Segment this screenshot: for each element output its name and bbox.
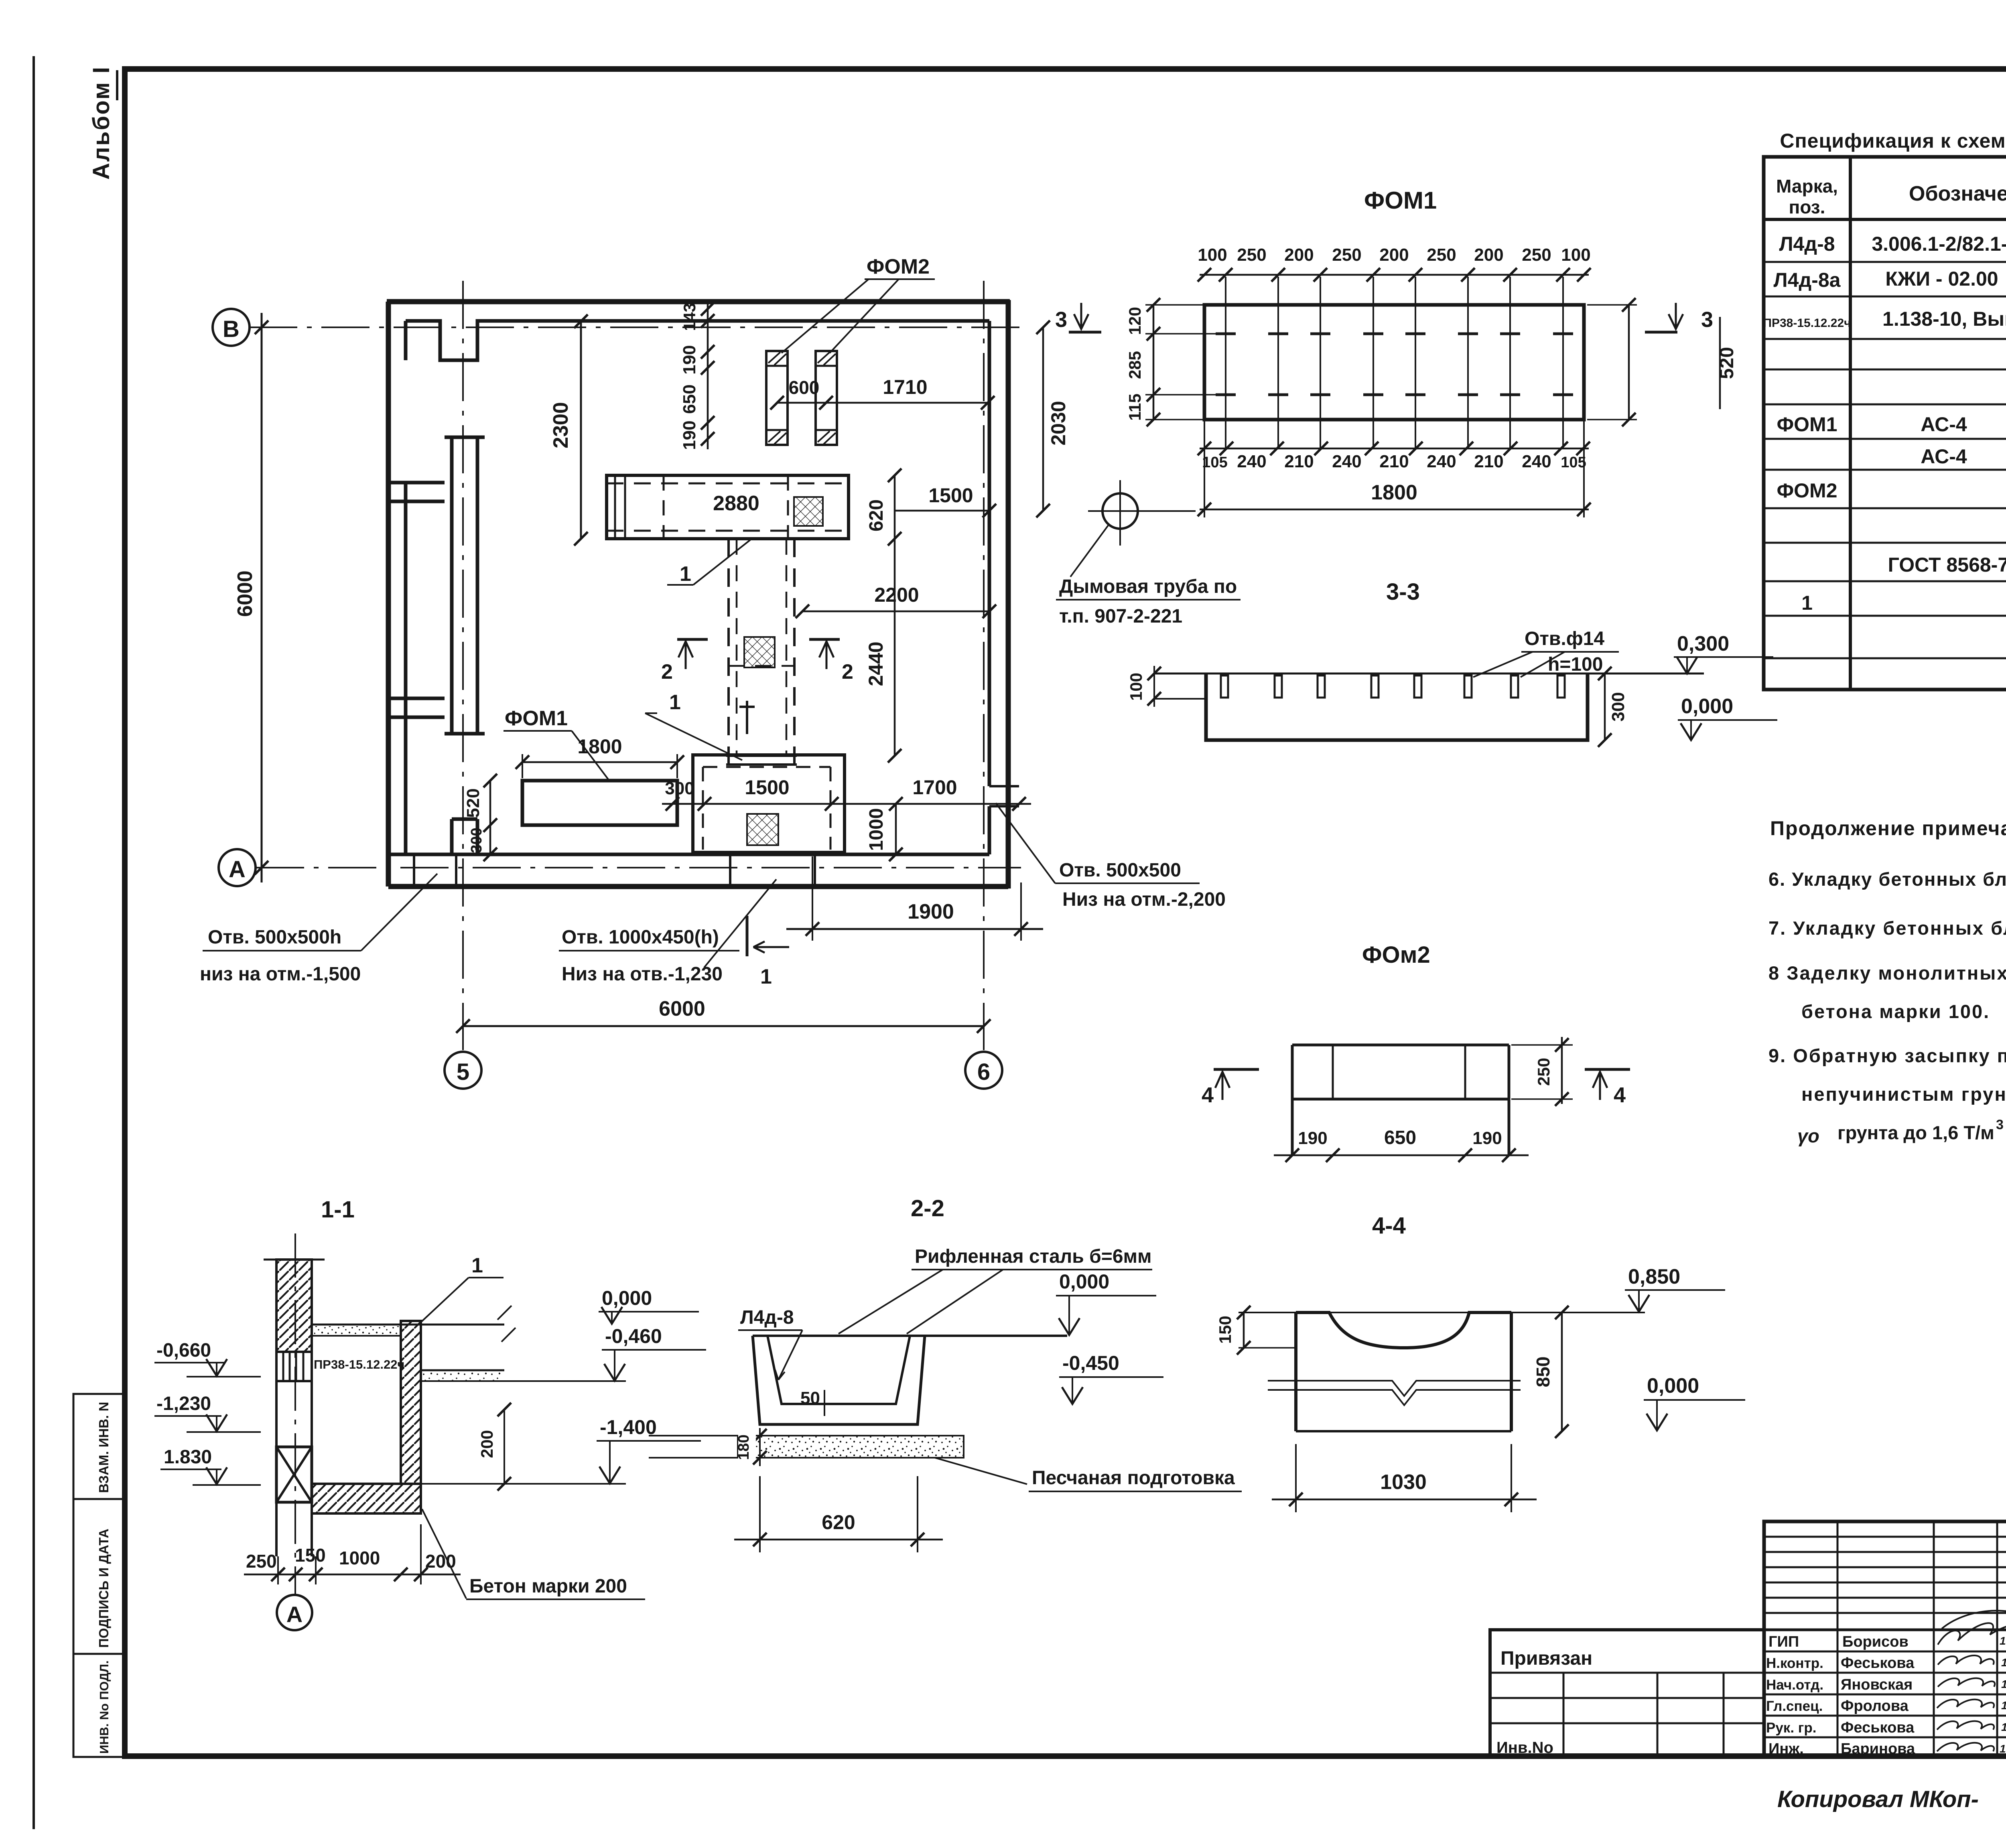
- svg-text:150: 150: [1216, 1316, 1234, 1344]
- svg-text:4: 4: [1614, 1083, 1626, 1107]
- svg-text:240: 240: [1522, 452, 1551, 471]
- svg-text:В: В: [223, 316, 240, 342]
- svg-text:620: 620: [822, 1511, 855, 1534]
- svg-text:Отв. 500x500: Отв. 500x500: [1059, 860, 1181, 881]
- svg-text:ФОМ1: ФОМ1: [505, 707, 568, 730]
- svg-text:650: 650: [1384, 1127, 1416, 1148]
- svg-text:105: 105: [1202, 454, 1227, 471]
- svg-text:200: 200: [477, 1430, 496, 1458]
- svg-text:6: 6: [977, 1059, 990, 1085]
- svg-text:850: 850: [1533, 1357, 1553, 1388]
- svg-text:Копировал МКоп-: Копировал МКоп-: [1777, 1786, 1979, 1812]
- svg-text:250: 250: [1237, 245, 1266, 265]
- svg-text:ФОМ2: ФОМ2: [1777, 479, 1837, 502]
- svg-text:620: 620: [866, 499, 887, 531]
- svg-text:520: 520: [463, 788, 483, 818]
- svg-text:0,300: 0,300: [1677, 632, 1729, 655]
- svg-text:240: 240: [1427, 452, 1456, 471]
- svg-text:1: 1: [760, 965, 772, 988]
- svg-text:Борисов: Борисов: [1842, 1633, 1909, 1650]
- svg-text:8 Заделку монолитных участков: 8 Заделку монолитных участков фундаменто…: [1768, 962, 2006, 984]
- svg-text:1.830: 1.830: [164, 1446, 212, 1468]
- svg-text:ВЗАМ. ИНВ. N: ВЗАМ. ИНВ. N: [96, 1402, 111, 1493]
- svg-text:ФОМ1: ФОМ1: [1364, 187, 1437, 214]
- svg-text:180: 180: [735, 1434, 752, 1460]
- svg-text:4: 4: [1202, 1083, 1214, 1107]
- svg-text:-0,660: -0,660: [156, 1340, 211, 1361]
- svg-text:Низ на отв.-1,230: Низ на отв.-1,230: [562, 964, 723, 985]
- svg-text:115: 115: [1125, 394, 1144, 421]
- svg-text:1700: 1700: [912, 776, 957, 799]
- svg-text:Марка,: Марка,: [1776, 176, 1838, 197]
- svg-text:6000: 6000: [233, 570, 257, 617]
- svg-text:ИНВ. No ПОДЛ.: ИНВ. No ПОДЛ.: [97, 1660, 111, 1754]
- svg-text:190: 190: [680, 420, 699, 450]
- svg-text:1800: 1800: [1371, 481, 1417, 504]
- svg-text:2880: 2880: [713, 492, 759, 515]
- svg-text:190: 190: [1472, 1128, 1502, 1148]
- svg-text:6. Укладку бетонных блоков вес: 6. Укладку бетонных блоков вести в соотв…: [1768, 868, 2006, 890]
- svg-text:250: 250: [1522, 245, 1551, 265]
- svg-text:300: 300: [665, 779, 694, 798]
- svg-text:А: А: [286, 1602, 303, 1627]
- svg-text:Фролова: Фролова: [1841, 1698, 1909, 1714]
- svg-text:низ на отм.-1,500: низ на отм.-1,500: [200, 964, 361, 985]
- svg-text:210: 210: [1379, 452, 1409, 471]
- svg-text:250: 250: [1534, 1058, 1553, 1086]
- svg-text:Рук. гр.: Рук. гр.: [1766, 1720, 1816, 1736]
- svg-text:ГИП: ГИП: [1768, 1633, 1799, 1650]
- svg-text:Баринова: Баринова: [1841, 1740, 1915, 1757]
- svg-text:3: 3: [1055, 308, 1067, 332]
- svg-text:1000: 1000: [866, 808, 887, 851]
- svg-text:1710: 1710: [883, 376, 927, 398]
- svg-text:1: 1: [669, 691, 681, 714]
- svg-text:Спецификация к схеме расположе: Спецификация к схеме расположения элемен…: [1780, 130, 2006, 152]
- svg-text:1: 1: [1801, 592, 1813, 614]
- svg-text:непучинистым грунтом послойно: непучинистым грунтом послойно с доведени…: [1801, 1083, 2006, 1105]
- svg-text:Феськова: Феськова: [1841, 1655, 1915, 1672]
- svg-text:650: 650: [680, 384, 699, 414]
- svg-text:7. Укладку бетонных блоков вес: 7. Укладку бетонных блоков вести на раст…: [1768, 917, 2006, 939]
- svg-text:2: 2: [661, 660, 673, 684]
- svg-text:4-4: 4-4: [1372, 1213, 1406, 1239]
- svg-text:Отв. 1000x450(h): Отв. 1000x450(h): [562, 927, 719, 948]
- svg-text:200: 200: [425, 1551, 456, 1572]
- svg-text:250: 250: [1332, 245, 1361, 265]
- svg-text:143: 143: [680, 303, 699, 331]
- svg-text:250: 250: [1427, 245, 1456, 265]
- svg-text:т.п. 907-2-221: т.п. 907-2-221: [1059, 606, 1182, 627]
- svg-text:ФОМ1: ФОМ1: [1777, 413, 1837, 436]
- svg-text:-1,230: -1,230: [156, 1393, 211, 1414]
- svg-text:Гл.спец.: Гл.спец.: [1766, 1698, 1823, 1714]
- svg-text:Н.контр.: Н.контр.: [1766, 1655, 1823, 1671]
- svg-text:Л4д-8: Л4д-8: [740, 1307, 794, 1328]
- svg-text:100: 100: [1198, 245, 1227, 265]
- svg-text:Продолжение примечаний к АС-4.: Продолжение примечаний к АС-4.: [1770, 817, 2006, 840]
- svg-text:0,000: 0,000: [1681, 695, 1733, 718]
- svg-text:1000: 1000: [339, 1548, 380, 1568]
- svg-text:Обозначение: Обозначение: [1909, 182, 2006, 205]
- svg-text:1030: 1030: [1380, 1471, 1427, 1494]
- svg-text:0,000: 0,000: [602, 1287, 652, 1309]
- svg-text:100: 100: [1561, 245, 1590, 265]
- svg-text:поз.: поз.: [1789, 197, 1825, 217]
- svg-text:2200: 2200: [874, 584, 919, 606]
- svg-text:1500: 1500: [928, 484, 973, 507]
- svg-text:6000: 6000: [659, 997, 705, 1020]
- svg-text:Л4д-8: Л4д-8: [1779, 233, 1835, 255]
- svg-text:-1,400: -1,400: [600, 1416, 657, 1438]
- svg-text:ФОМ2: ФОМ2: [867, 255, 930, 278]
- svg-text:240: 240: [1237, 452, 1266, 471]
- svg-text:Нач.отд.: Нач.отд.: [1766, 1677, 1823, 1693]
- svg-text:3.006.1-2/82.1-1-04.0-2: 3.006.1-2/82.1-1-04.0-2: [1872, 233, 2006, 255]
- svg-text:Привязан: Привязан: [1500, 1648, 1592, 1669]
- svg-text:Бетон марки 200: Бетон марки 200: [469, 1576, 627, 1597]
- svg-text:190: 190: [1298, 1128, 1327, 1148]
- svg-text:0,000: 0,000: [1059, 1270, 1109, 1293]
- svg-text:Рифленная сталь б=6мм: Рифленная сталь б=6мм: [915, 1246, 1152, 1267]
- svg-text:9. Обратную засыпку пазух фун: 9. Обратную засыпку пазух фундаментов пр…: [1768, 1045, 2006, 1066]
- svg-text:ГОСТ 8568-77*: ГОСТ 8568-77*: [1888, 554, 2006, 576]
- svg-text:-0,450: -0,450: [1062, 1352, 1119, 1374]
- svg-text:Низ на отм.-2,200: Низ на отм.-2,200: [1062, 889, 1226, 910]
- svg-text:120: 120: [1125, 307, 1144, 335]
- svg-text:240: 240: [1332, 452, 1361, 471]
- svg-text:200: 200: [1284, 245, 1314, 265]
- svg-text:КЖИ - 02.00: КЖИ - 02.00: [1885, 268, 1998, 290]
- svg-text:2300: 2300: [549, 402, 573, 448]
- svg-text:Песчаная подготовка: Песчаная подготовка: [1032, 1467, 1235, 1489]
- svg-text:1.138-10, Вып.1: 1.138-10, Вып.1: [1882, 308, 2006, 330]
- svg-text:300: 300: [468, 828, 485, 853]
- svg-text:грунта до 1,6 Т/м: грунта до 1,6 Т/м: [1837, 1122, 1994, 1143]
- svg-text:1.04.86: 1.04.86: [2000, 1743, 2006, 1755]
- svg-text:1: 1: [471, 1254, 483, 1277]
- svg-text:Дымовая труба по: Дымовая труба по: [1059, 576, 1237, 597]
- svg-text:0,000: 0,000: [1647, 1374, 1699, 1398]
- svg-text:Альбом I: Альбом I: [88, 66, 114, 180]
- svg-text:ПОДПИСЬ И ДАТА: ПОДПИСЬ И ДАТА: [96, 1529, 111, 1648]
- svg-text:300: 300: [1608, 692, 1628, 721]
- svg-text:1.4.86: 1.4.86: [2001, 1656, 2006, 1669]
- svg-text:АС-4: АС-4: [1921, 445, 1967, 468]
- svg-text:Инв.No: Инв.No: [1496, 1739, 1553, 1757]
- svg-text:250: 250: [246, 1551, 277, 1572]
- svg-text:1.04.86: 1.04.86: [2000, 1635, 2006, 1647]
- svg-text:210: 210: [1474, 452, 1503, 471]
- svg-text:5: 5: [457, 1059, 469, 1085]
- svg-text:1.4.12: 1.4.12: [2001, 1678, 2006, 1690]
- svg-text:200: 200: [1474, 245, 1503, 265]
- svg-text:200: 200: [1379, 245, 1409, 265]
- svg-text:2: 2: [842, 660, 853, 684]
- svg-text:ПР38-15.12.22ч: ПР38-15.12.22ч: [1763, 316, 1851, 330]
- svg-text:3: 3: [1996, 1117, 2004, 1132]
- svg-text:3: 3: [1701, 308, 1713, 332]
- svg-text:2030: 2030: [1047, 401, 1070, 445]
- svg-text:3-3: 3-3: [1386, 579, 1420, 605]
- svg-text:ПР38-15.12.22ч: ПР38-15.12.22ч: [314, 1357, 404, 1371]
- svg-text:50: 50: [800, 1388, 820, 1408]
- svg-text:2440: 2440: [865, 641, 887, 686]
- svg-text:105: 105: [1561, 454, 1586, 471]
- svg-text:Отв.ф14: Отв.ф14: [1525, 628, 1604, 649]
- svg-text:150: 150: [295, 1545, 326, 1566]
- svg-text:γо: γо: [1797, 1125, 1819, 1146]
- svg-text:ФОм2: ФОм2: [1362, 942, 1430, 968]
- svg-text:100: 100: [1127, 673, 1145, 701]
- svg-text:1.4.86: 1.4.86: [2001, 1699, 2006, 1712]
- svg-text:бетона марки 100.: бетона марки 100.: [1801, 1001, 1990, 1022]
- svg-text:Отв. 500x500h: Отв. 500x500h: [208, 927, 341, 948]
- svg-text:190: 190: [680, 345, 699, 374]
- svg-text:АС-4: АС-4: [1921, 413, 1967, 436]
- svg-text:1.4.86: 1.4.86: [2001, 1721, 2006, 1733]
- svg-text:600: 600: [789, 377, 820, 398]
- svg-text:Яновская: Яновская: [1841, 1676, 1913, 1693]
- svg-text:1-1: 1-1: [321, 1197, 355, 1223]
- svg-text:210: 210: [1284, 452, 1314, 471]
- svg-text:1900: 1900: [908, 900, 954, 923]
- svg-text:Л4д-8а: Л4д-8а: [1774, 269, 1841, 291]
- svg-text:1500: 1500: [745, 776, 789, 799]
- svg-text:285: 285: [1125, 351, 1144, 379]
- svg-text:1: 1: [680, 562, 691, 586]
- svg-text:2-2: 2-2: [911, 1195, 944, 1221]
- svg-text:А: А: [229, 856, 246, 882]
- svg-text:Инж.: Инж.: [1768, 1740, 1804, 1757]
- svg-text:-0,460: -0,460: [605, 1325, 662, 1347]
- svg-text:0,850: 0,850: [1628, 1265, 1680, 1288]
- svg-text:Феськова: Феськова: [1841, 1719, 1915, 1736]
